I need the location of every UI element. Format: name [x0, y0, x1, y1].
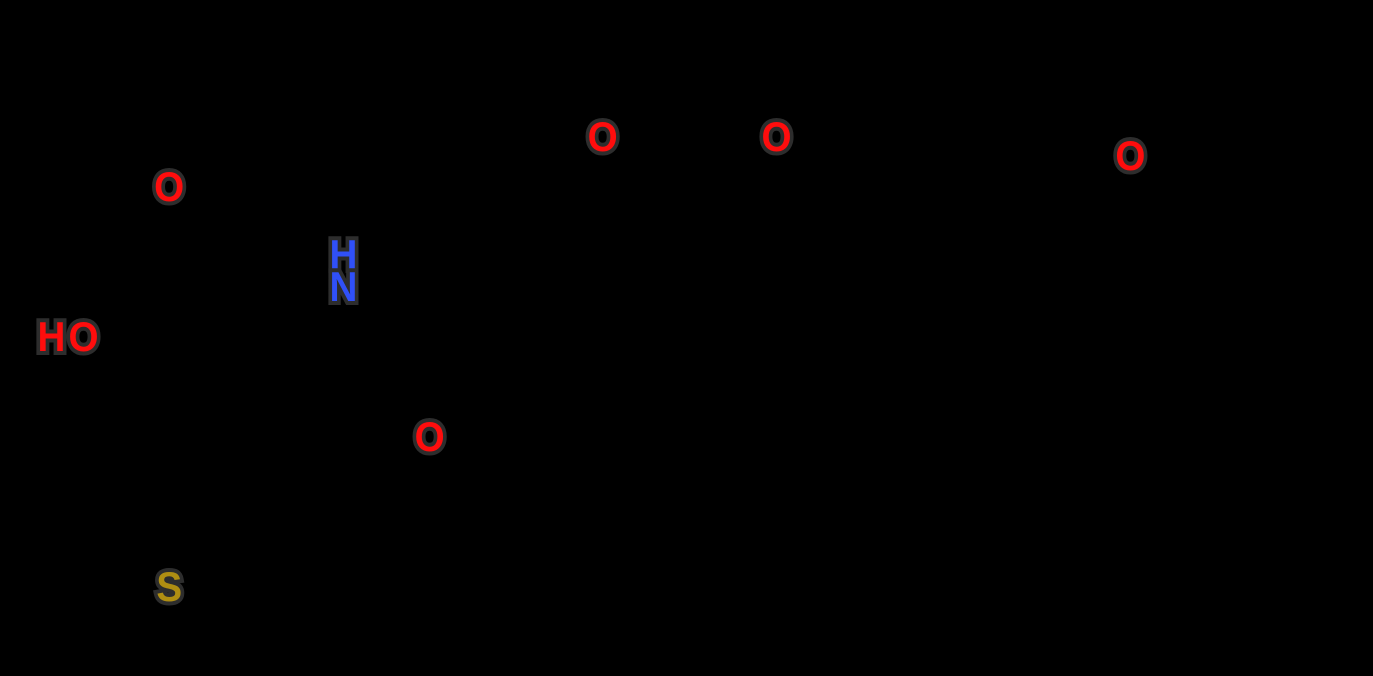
bond N-C(amide)	[356, 307, 397, 370]
bond CH2(gamma)-S	[178, 480, 213, 565]
bond C(carboxyl)-C(alpha)	[135, 317, 213, 370]
bond C(amide)-CH2	[397, 323, 480, 370]
svg-text:O: O	[415, 412, 445, 460]
svg-text:O: O	[588, 112, 618, 160]
bond C(carboxyl)=O double, line 2	[144, 209, 173, 319]
svg-text:N: N	[329, 262, 357, 310]
svg-text:O: O	[154, 162, 184, 210]
svg-text:S: S	[156, 562, 182, 610]
bond C(amide)=O double, line 2	[389, 374, 412, 420]
bond S-CH3	[94, 604, 148, 648]
bond C(alpha)-N	[213, 304, 332, 370]
bond C(amide)=O double, line 1	[397, 370, 420, 416]
svg-text:O: O	[68, 312, 98, 360]
svg-text:H: H	[37, 312, 65, 360]
bond C(alpha)-CH2(beta)	[140, 370, 213, 425]
bond C(carboxyl)-OH	[103, 317, 135, 329]
svg-text:O: O	[761, 112, 791, 160]
bond C(carboxyl)=O double, line 1	[135, 207, 164, 317]
svg-text:O: O	[1115, 131, 1145, 179]
bond CH2(beta)-CH2(gamma)	[140, 425, 213, 480]
